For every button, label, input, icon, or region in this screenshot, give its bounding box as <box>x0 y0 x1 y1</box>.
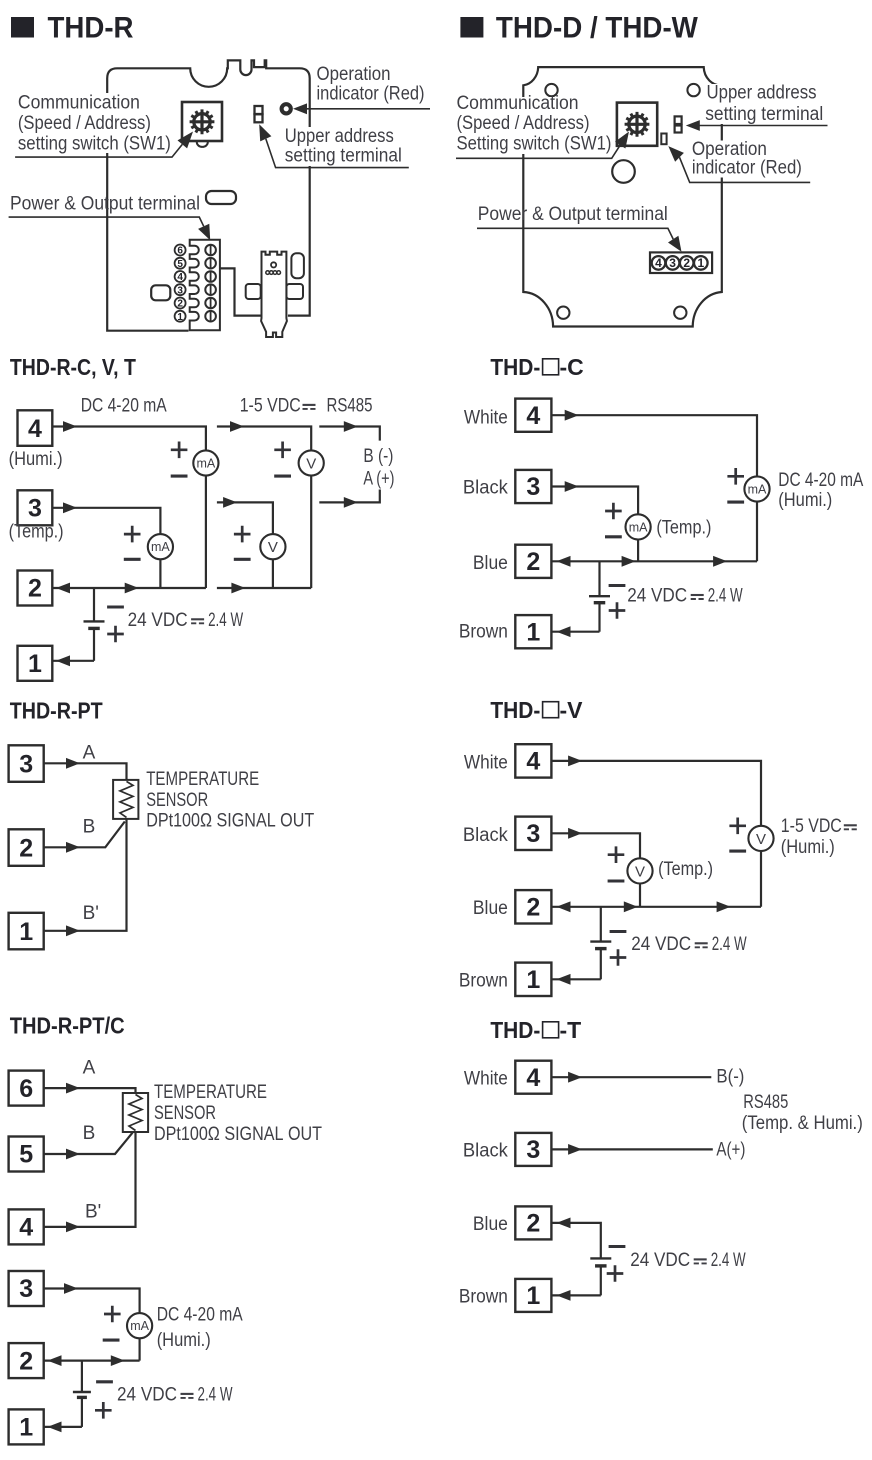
arrow <box>568 1144 582 1155</box>
svg-text:2: 2 <box>526 894 540 922</box>
svg-text:Upper address: Upper address <box>285 126 394 147</box>
terminal box 1 <box>515 963 551 996</box>
svg-text:1: 1 <box>526 966 540 994</box>
svg-text:3: 3 <box>526 820 540 848</box>
arrow <box>66 758 80 769</box>
minus <box>609 584 626 587</box>
svg-text:3: 3 <box>669 256 676 270</box>
ammeter mA (Humi.) <box>193 450 218 475</box>
svg-text:indicator (Red): indicator (Red) <box>692 157 802 178</box>
terminal box 4 <box>9 1209 44 1244</box>
terminal box 6 <box>9 1071 44 1106</box>
svg-text:2: 2 <box>19 834 33 862</box>
arrow into terminal1 <box>557 1290 571 1301</box>
svg-text:4: 4 <box>526 1064 540 1092</box>
svg-text:1: 1 <box>28 650 42 678</box>
arrow <box>66 925 80 936</box>
arrow <box>568 756 582 767</box>
svg-text:Communication: Communication <box>457 93 579 114</box>
arrow to pins <box>259 124 271 141</box>
arrow <box>565 410 579 421</box>
svg-text:2: 2 <box>177 299 183 310</box>
svg-text:4: 4 <box>526 748 540 776</box>
wire RS485 A(+) <box>319 490 380 503</box>
wire terminal4 to V (Humi.) <box>551 761 761 907</box>
terminal box 3 <box>18 490 53 525</box>
wire terminal3 to mA meter (Temp.) <box>52 508 160 588</box>
svg-text:mA: mA <box>748 483 767 497</box>
arrow to LED bar <box>668 146 684 162</box>
leader line to LED bar <box>680 157 811 182</box>
svg-text:24 VDC: 24 VDC <box>117 1385 177 1406</box>
svg-text:THD-R-PT/C: THD-R-PT/C <box>10 1013 125 1039</box>
svg-text:4: 4 <box>19 1214 33 1242</box>
ammeter mA (Temp.) <box>148 534 173 559</box>
svg-text:THD-R-PT: THD-R-PT <box>10 698 103 724</box>
svg-text:24 VDC: 24 VDC <box>128 610 188 631</box>
label: Operation indicator (Red) [THD-D/W] <box>689 139 805 179</box>
svg-text:Communication: Communication <box>18 92 140 113</box>
svg-text:Power & Output terminal: Power & Output terminal <box>10 193 200 214</box>
arrow into terminal1 <box>557 974 571 985</box>
arrow <box>63 421 77 432</box>
svg-text:(Humi.): (Humi.) <box>157 1330 211 1351</box>
svg-text:2: 2 <box>28 575 42 603</box>
svg-text:setting terminal: setting terminal <box>285 146 402 167</box>
arrow <box>568 828 582 839</box>
minus <box>171 475 188 478</box>
svg-text:White: White <box>464 1069 508 1090</box>
terminal box 3 <box>515 817 551 850</box>
terminal box 1 <box>515 1279 551 1312</box>
svg-text:4: 4 <box>655 256 662 270</box>
terminal box 3 <box>9 745 44 782</box>
wire terminal4 to mA meter (Humi.) <box>52 427 206 589</box>
battery 24VDC <box>84 588 105 661</box>
terminal box 2 <box>515 890 551 923</box>
terminal box 4 <box>515 744 551 777</box>
arrow into terminal2 <box>48 1355 62 1366</box>
terminal box 4 <box>18 410 53 446</box>
power & output terminal block (THD-R) <box>190 240 220 330</box>
svg-text:1-5 VDC: 1-5 VDC <box>240 396 301 417</box>
arrow into terminal2 <box>557 556 571 567</box>
arrow <box>64 1283 78 1294</box>
arrow <box>344 421 358 432</box>
svg-text:2.4 W: 2.4 W <box>711 1250 746 1271</box>
minus <box>103 1339 120 1342</box>
svg-text:2.4 W: 2.4 W <box>712 934 747 955</box>
svg-text:5: 5 <box>177 259 183 270</box>
plus <box>124 526 141 543</box>
svg-text:5: 5 <box>19 1141 33 1169</box>
minus <box>124 558 141 561</box>
arrow to pins <box>686 120 700 131</box>
plus <box>605 503 622 520</box>
svg-text:B(-): B(-) <box>716 1067 744 1088</box>
terminal box 3 <box>515 1133 551 1166</box>
arrow <box>624 901 638 912</box>
minus <box>729 850 746 853</box>
terminal numbers 6-1 (THD-R block) <box>175 245 186 323</box>
svg-text:Blue: Blue <box>473 1214 508 1235</box>
svg-text:RS485: RS485 <box>743 1092 788 1113</box>
resistor: temperature sensor DPt100 <box>113 780 138 819</box>
arrow into terminal2 <box>557 901 571 912</box>
svg-text:Black: Black <box>463 825 508 846</box>
wire common rail (mA group) <box>52 587 206 589</box>
wire terminal3 (A) to sensor <box>44 763 127 780</box>
svg-text:4: 4 <box>526 402 540 430</box>
wire common rail <box>551 906 761 908</box>
plus <box>234 526 251 543</box>
svg-text:24 VDC: 24 VDC <box>631 934 691 955</box>
arrow <box>125 583 139 594</box>
leader line to terminal block <box>9 217 204 226</box>
plus <box>607 1265 624 1282</box>
svg-text:mA: mA <box>130 1319 149 1333</box>
battery 24VDC <box>73 1361 91 1427</box>
terminal box 2 <box>9 1343 44 1378</box>
wire common rail <box>551 560 757 562</box>
upper address setting terminal pins (THD-R) <box>255 106 263 122</box>
arrow <box>231 583 245 594</box>
wire terminal3 to RS485 A(+) <box>551 1148 712 1150</box>
svg-text:1: 1 <box>697 256 704 270</box>
svg-text:2: 2 <box>526 548 540 576</box>
arrow <box>565 481 579 492</box>
plus <box>609 602 626 619</box>
terminal box 1 <box>515 615 551 648</box>
upper address setting terminal pins (THD-D/W) <box>675 116 682 132</box>
mounting hole bottom-right <box>674 307 686 319</box>
DIN rail clip right wing (THD-R) <box>286 284 303 299</box>
DIN rail clip (THD-R) <box>261 252 287 337</box>
arrow to SW1 <box>615 132 629 149</box>
voltmeter V (Temp.) <box>260 534 285 559</box>
svg-text:3: 3 <box>19 1275 33 1303</box>
battery 24VDC <box>590 1258 611 1295</box>
wire terminal3 to V (Temp.) <box>551 833 640 907</box>
svg-text:Power & Output terminal: Power & Output terminal <box>478 204 668 225</box>
label: Upper address setting terminal [THD-D/W] <box>704 82 832 125</box>
svg-text:V: V <box>635 863 645 880</box>
svg-text:DC 4-20 mA: DC 4-20 mA <box>81 396 167 417</box>
operation indicator LED bar (THD-D/W) <box>661 134 666 145</box>
small slot (THD-R) <box>206 191 236 204</box>
power & output terminal block (THD-D/W) <box>650 252 712 273</box>
svg-text:Brown: Brown <box>459 621 508 642</box>
svg-text:DC 4-20 mA: DC 4-20 mA <box>157 1305 243 1326</box>
svg-text:V: V <box>306 455 316 472</box>
svg-text:setting switch (SW1): setting switch (SW1) <box>18 134 171 155</box>
wire common rail <box>44 1359 140 1361</box>
svg-text:White: White <box>464 407 508 428</box>
svg-text:2: 2 <box>526 1210 540 1238</box>
minus <box>605 535 622 538</box>
wire terminal1 to battery <box>44 1426 82 1428</box>
svg-text:A: A <box>83 1058 96 1079</box>
wire RS485 B(-) <box>319 427 380 441</box>
label: Operation indicator (Red) [THD-R] <box>317 64 425 105</box>
svg-text:TEMPERATURE: TEMPERATURE <box>154 1082 267 1103</box>
svg-text:White: White <box>464 752 508 773</box>
THD-R device body outline <box>107 60 310 330</box>
wire terminal1 to battery <box>551 978 600 980</box>
svg-text:(Humi.): (Humi.) <box>778 490 832 511</box>
voltmeter V (Temp.) <box>627 858 652 883</box>
minus <box>609 1245 626 1248</box>
svg-text:A (+): A (+) <box>363 468 394 489</box>
svg-text:Upper address: Upper address <box>707 82 817 103</box>
minus <box>274 475 291 478</box>
label: Communication (Speed / Address) Setting switch (SW1) [THD-D/W] <box>455 93 613 155</box>
svg-text:A(+): A(+) <box>716 1140 745 1161</box>
wire terminal3 to mA (Temp.) <box>551 487 638 562</box>
DIN clip pin holes <box>266 271 281 275</box>
plus <box>171 442 188 459</box>
wire terminal2 (B) to sensor <box>44 822 125 848</box>
svg-text:mA: mA <box>151 540 170 554</box>
svg-text:RS485: RS485 <box>327 396 373 417</box>
terminal box 1 <box>9 1409 44 1444</box>
svg-text:A: A <box>83 743 96 764</box>
wire terminal3 to mA (Humi.) <box>44 1289 140 1361</box>
leader line to SW1 <box>456 145 620 158</box>
arrow <box>622 556 636 567</box>
svg-text:B: B <box>83 1123 96 1144</box>
wire terminal1 (B') to sensor <box>44 819 127 931</box>
arrow <box>717 901 731 912</box>
heading bullet THD-D / THD-W <box>460 17 483 38</box>
wire V branch (Temp.) <box>217 502 273 588</box>
svg-text:(Humi.): (Humi.) <box>9 449 63 470</box>
terminal box 2 <box>18 571 53 606</box>
voltmeter V (Humi.) <box>748 826 773 851</box>
svg-text:DC 4-20 mA: DC 4-20 mA <box>778 470 863 491</box>
svg-text:SENSOR: SENSOR <box>154 1103 216 1124</box>
svg-text:mA: mA <box>197 457 216 471</box>
arrow <box>66 842 80 853</box>
svg-text:6: 6 <box>19 1075 33 1103</box>
svg-text:V: V <box>268 539 278 556</box>
svg-text:(Temp.): (Temp.) <box>9 522 64 543</box>
leader line to LED <box>305 108 430 110</box>
plus <box>104 1306 121 1323</box>
wire terminal4 (B') to sensor <box>44 1132 136 1227</box>
svg-text:B: B <box>83 817 96 838</box>
svg-text:1: 1 <box>526 618 540 646</box>
svg-text:(Temp.): (Temp.) <box>658 859 713 880</box>
svg-text:Brown: Brown <box>459 970 508 991</box>
svg-text:SENSOR: SENSOR <box>146 790 208 811</box>
label: Communication (Speed / Address) setting switch (SW1) [THD-R] <box>14 92 173 154</box>
arrow <box>713 556 727 567</box>
center hole (THD-D/W) <box>612 160 635 183</box>
wire terminal1 to battery <box>551 1294 600 1296</box>
svg-text:DPt100Ω SIGNAL OUT: DPt100Ω SIGNAL OUT <box>154 1124 322 1145</box>
svg-text:1-5 VDC: 1-5 VDC <box>781 816 842 837</box>
wire terminal5 (B) to sensor <box>44 1133 133 1154</box>
ammeter mA (Humi.) <box>744 476 769 501</box>
battery 24VDC <box>590 907 611 980</box>
arrow to terminal block <box>668 236 682 252</box>
wire V branch (Humi.) <box>217 427 311 589</box>
svg-text:THD-R-C, V, T: THD-R-C, V, T <box>10 354 136 380</box>
arrow <box>63 502 77 513</box>
svg-text:2: 2 <box>683 256 690 270</box>
arrow <box>344 497 358 508</box>
terminal box 2 <box>9 829 44 866</box>
leader line to pins <box>697 125 827 127</box>
minus <box>234 558 251 561</box>
arrow into terminal2 <box>557 1218 571 1229</box>
arrow <box>66 1083 80 1094</box>
svg-text:4: 4 <box>177 272 183 283</box>
leader line to SW1 <box>15 144 182 157</box>
svg-text:mA: mA <box>629 520 648 534</box>
arrow <box>66 1222 80 1233</box>
svg-text:Operation: Operation <box>317 64 391 85</box>
plus <box>608 846 625 863</box>
minus <box>727 501 744 504</box>
svg-text:THD-: THD- <box>490 354 540 380</box>
plus <box>610 949 627 966</box>
svg-text:THD-: THD- <box>490 697 540 723</box>
voltmeter V (Humi.) <box>299 450 324 475</box>
svg-text:2: 2 <box>19 1347 33 1375</box>
svg-text:B (-): B (-) <box>363 446 393 467</box>
svg-text:3: 3 <box>526 473 540 501</box>
DIN rail clip side slot (THD-R) <box>291 253 304 278</box>
svg-text:Brown: Brown <box>459 1287 508 1308</box>
terminal box 4 <box>515 399 551 432</box>
svg-text:6: 6 <box>177 246 183 257</box>
mounting hole top-left <box>545 84 557 96</box>
plus <box>107 626 124 643</box>
arrow <box>230 421 244 432</box>
wire terminal1 to battery <box>52 660 94 662</box>
svg-text:(Temp. & Humi.): (Temp. & Humi.) <box>742 1113 863 1134</box>
terminal screws <box>205 245 216 322</box>
svg-text:B': B' <box>85 1201 101 1222</box>
svg-text:1: 1 <box>19 1414 33 1442</box>
label: Upper address setting terminal [THD-R] <box>283 126 404 167</box>
DIN rail clip left wing (THD-R) <box>246 284 261 299</box>
DIN clip hole <box>271 262 276 267</box>
svg-text:-V: -V <box>560 697 584 723</box>
svg-text:2.4 W: 2.4 W <box>198 1385 233 1406</box>
svg-text:3: 3 <box>19 750 33 778</box>
svg-text:3: 3 <box>526 1136 540 1164</box>
arrow into terminal1 <box>557 626 571 637</box>
arrow to LED <box>293 103 307 114</box>
svg-text:1: 1 <box>526 1282 540 1310</box>
terminal box 5 <box>9 1137 44 1172</box>
svg-text:B': B' <box>83 903 99 924</box>
resistor: temperature sensor DPt100 <box>123 1093 148 1132</box>
svg-text:Black: Black <box>463 1141 508 1162</box>
svg-text:1: 1 <box>177 312 183 323</box>
mounting hole bottom-left <box>557 307 569 319</box>
terminal box 3 <box>515 470 551 503</box>
arrow into terminal1 <box>48 1422 62 1433</box>
svg-text:3: 3 <box>177 285 183 296</box>
heading bullet THD-R <box>11 17 34 38</box>
side slot (THD-R) <box>151 285 170 300</box>
battery 24VDC <box>589 561 610 631</box>
arrow <box>568 1072 582 1083</box>
svg-text:-C: -C <box>560 354 584 380</box>
rotary switch SW1 (THD-R) <box>182 102 222 147</box>
arrow into terminal1 <box>56 655 70 666</box>
arrow to terminal block <box>198 224 210 241</box>
svg-text:THD-: THD- <box>490 1017 540 1043</box>
wire terminal2 to battery <box>551 1223 600 1259</box>
operation indicator LED (THD-R) <box>282 104 291 113</box>
minus <box>96 1380 113 1383</box>
svg-text:-T: -T <box>560 1017 582 1043</box>
terminal box 2 <box>515 545 551 578</box>
mounting hole top-right <box>687 84 699 96</box>
minus <box>107 605 124 608</box>
arrow <box>223 497 237 508</box>
THD-D/THD-W device body outline <box>523 67 722 326</box>
wire common rail (V group) <box>217 587 311 589</box>
svg-text:TEMPERATURE: TEMPERATURE <box>146 769 259 790</box>
terminal box 1 <box>9 913 44 950</box>
svg-text:Blue: Blue <box>473 553 508 574</box>
ammeter mA (Temp.) <box>626 514 651 539</box>
minus <box>608 879 625 882</box>
svg-text:2.4 W: 2.4 W <box>208 610 243 631</box>
minus <box>610 930 627 933</box>
plus <box>727 468 744 485</box>
svg-text:(Speed / Address): (Speed / Address) <box>457 113 590 134</box>
wire terminal4 to mA (Humi.) <box>551 415 757 561</box>
svg-text:24 VDC: 24 VDC <box>630 1250 690 1271</box>
arrow <box>66 1149 80 1160</box>
arrow into terminal2 <box>56 583 70 594</box>
svg-text:(Speed / Address): (Speed / Address) <box>18 113 151 134</box>
svg-text:24 VDC: 24 VDC <box>627 586 687 607</box>
svg-text:Black: Black <box>463 478 508 499</box>
svg-text:3: 3 <box>28 495 42 523</box>
plus <box>95 1402 112 1419</box>
terminal box 4 <box>515 1061 551 1094</box>
svg-text:Blue: Blue <box>473 898 508 919</box>
terminal box 3 <box>9 1271 44 1306</box>
ammeter mA (Humi.) <box>127 1313 152 1338</box>
leader line to pins <box>266 139 409 168</box>
plus <box>729 818 746 835</box>
svg-text:V: V <box>756 831 766 848</box>
svg-text:1: 1 <box>19 918 33 946</box>
wire terminal6 (A) to sensor <box>44 1088 136 1093</box>
rotary switch SW1 (THD-D/W) <box>617 103 657 146</box>
wire terminal1 to battery <box>551 631 599 633</box>
arrow <box>111 1355 125 1366</box>
terminal box 2 <box>515 1206 551 1239</box>
svg-text:4: 4 <box>28 415 42 443</box>
wire terminal4 to RS485 B(-) <box>551 1076 711 1078</box>
svg-text:DPt100Ω SIGNAL OUT: DPt100Ω SIGNAL OUT <box>146 811 314 832</box>
svg-text:2.4 W: 2.4 W <box>708 586 743 607</box>
terminal box 1 <box>18 646 53 681</box>
plus <box>274 442 291 459</box>
svg-text:indicator (Red): indicator (Red) <box>317 84 425 105</box>
arrow to SW1 <box>178 132 194 149</box>
